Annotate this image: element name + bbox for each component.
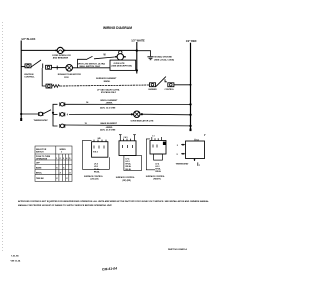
ground (147, 57, 153, 60)
svg-text:CONTROL: CONTROL (165, 89, 175, 91)
svg-text:OVEN LITE: OVEN LITE (114, 63, 126, 65)
surface control assembly 3 (146, 136, 166, 181)
svg-text:(SEE DESCRIPTION): (SEE DESCRIPTION) (112, 66, 133, 68)
svg-text:OPERATION: OPERATION (36, 158, 48, 161)
svg-text:5: 5 (69, 158, 70, 160)
svg-text:(RF) (RR): (RF) (RR) (123, 180, 132, 182)
svg-text:WALL SWITCH ONLY: WALL SWITCH ONLY (80, 65, 101, 68)
connector P1 (24, 64, 35, 79)
bus L1 end terminal (20, 118, 22, 121)
connector P3 (46, 84, 52, 88)
svg-text:1/2" RED: 1/2" RED (186, 40, 197, 43)
selector frame (53, 104, 58, 126)
svg-text:SURFACE CONTROL: SURFACE CONTROL (116, 176, 136, 179)
svg-text:(LF) (LR): (LF) (LR) (91, 178, 99, 180)
svg-text:SURFACE CONTROL: SURFACE CONTROL (84, 175, 104, 178)
svg-text:3: 3 (63, 158, 64, 160)
switch S2 burner control (149, 77, 175, 91)
broil element text (100, 100, 118, 109)
connector P4 (60, 102, 65, 106)
wire (52, 67, 66, 69)
wire indicator (69, 113, 134, 115)
junction dot N bus row1 (136, 49, 138, 51)
surface control assembly 2 (116, 135, 142, 182)
svg-text:(RIGHT): (RIGHT) (154, 179, 162, 181)
connector P2 (46, 65, 52, 69)
svg-text:1: 1 (56, 158, 57, 160)
bus L2 end terminal (190, 129, 192, 132)
thermostat TH1 connector (34, 112, 49, 122)
svg-text:1/2" BLACK: 1/2" BLACK (21, 38, 35, 41)
svg-text:BURNER: BURNER (149, 89, 158, 91)
wire row3 (60, 85, 149, 86)
lamp DS1 oven indicator (131, 111, 155, 122)
wire row2 (21, 66, 25, 68)
fan motor B1 (58, 65, 81, 79)
svg-text:2 4 5: 2 4 5 (124, 136, 128, 139)
svg-text:LF-4: LF-4 (155, 162, 159, 165)
wire row3 drop (42, 68, 46, 86)
svg-text:THERMOSTAT: THERMOSTAT (34, 119, 49, 122)
svg-text:WIRING DIAGRAM: WIRING DIAGRAM (103, 26, 132, 30)
surface element text block (96, 77, 120, 94)
svg-text:245: 245 (98, 137, 101, 140)
wire (140, 113, 191, 116)
connector P5 (60, 113, 69, 117)
resistor R1 (52, 85, 60, 88)
wire to lamp (94, 57, 115, 59)
junction tick (42, 64, 44, 69)
svg-text:2: 2 (60, 158, 61, 160)
svg-text:BY-PASS ONLY: BY-PASS ONLY (101, 91, 117, 94)
svg-text:240V, 21.8 OHM: 240V, 21.8 OHM (100, 129, 116, 132)
switch S3 selector blade (44, 110, 52, 114)
left edge scan artifact dots (2, 22, 4, 252)
svg-text:-WWW-: -WWW- (103, 81, 111, 83)
svg-text:TIME BK: TIME BK (36, 178, 44, 180)
svg-text:1/2" WHITE: 1/2" WHITE (131, 40, 145, 43)
svg-text:RR-BL: RR-BL (155, 171, 161, 173)
circuit breaker CB1 (52, 47, 71, 59)
svg-text:PART NO 22MO14: PART NO 22MO14 (168, 248, 187, 251)
svg-text:BAKE: BAKE (36, 166, 42, 169)
svg-text:(SEE LOCAL CODE): (SEE LOCAL CODE) (154, 58, 174, 61)
switch S4 blade (86, 56, 93, 59)
wire L1 bus (20, 41, 22, 121)
svg-text:SIGNAL GROUND: SIGNAL GROUND (154, 56, 172, 59)
svg-text:H N 4: H N 4 (93, 151, 98, 154)
connector P6 (60, 124, 65, 128)
svg-text:BROIL: BROIL (36, 172, 43, 174)
svg-text:-WWW-: -WWW- (106, 103, 114, 105)
bake element text (100, 122, 118, 132)
svg-text:SURFACE CONTROL: SURFACE CONTROL (146, 175, 166, 178)
svg-text:AND BREAKER: AND BREAKER (53, 56, 69, 59)
wire L2 bus (190, 43, 192, 131)
svg-text:BK-BL: BK-BL (126, 169, 132, 171)
wire (73, 67, 111, 69)
wire bake (65, 124, 191, 127)
svg-text:CONTROL: CONTROL (24, 76, 35, 78)
svg-text:115V: 115V (64, 77, 69, 79)
svg-text:MANUAL FOR PROPER HOOKUP OF RA: MANUAL FOR PROPER HOOKUP OF RANGE TO SUP… (18, 204, 112, 207)
svg-text:2: 2 (177, 145, 178, 147)
oven light DS2 bulb (115, 51, 126, 60)
svg-text:240V, 12.5 OHM: 240V, 12.5 OHM (100, 106, 116, 109)
light switch branch (78, 59, 87, 68)
wire row1 (21, 49, 137, 51)
svg-text:7-51-86: 7-51-86 (11, 256, 19, 258)
svg-text:OVEN INDICATOR LITE: OVEN INDICATOR LITE (131, 119, 155, 122)
oven light box (110, 60, 136, 70)
svg-text:SWITCH: SWITCH (36, 151, 44, 153)
svg-text:RR-BL: RR-BL (94, 171, 100, 173)
wire broil (65, 103, 191, 105)
svg-text:APPROVED SYSTEM IS NOT EQUIPPE: APPROVED SYSTEM IS NOT EQUIPPED FOR UNSU… (18, 200, 210, 203)
svg-text:VIN 11-34: VIN 11-34 (11, 260, 22, 263)
surface control assembly 1 (83, 137, 110, 180)
legend table (35, 146, 72, 181)
svg-text:BAKE ELEMENT: BAKE ELEMENT (101, 122, 118, 125)
svg-text:LF-4: LF-4 (94, 163, 98, 166)
svg-text:LP GAS VALVE ULTRA: LP GAS VALVE ULTRA (97, 89, 120, 92)
thermostat box TH2 (176, 138, 205, 166)
wire ground branch (137, 51, 151, 57)
junction dot N bus box (136, 69, 138, 71)
wire oven feed (21, 113, 38, 115)
wire (174, 84, 191, 86)
wire N bus (136, 42, 138, 74)
switch S1 blade (31, 60, 41, 67)
svg-text:THERMOSTAT: THERMOSTAT (176, 163, 190, 166)
svg-text:EXHAUST FAN MOTOR: EXHAUST FAN MOTOR (58, 73, 81, 76)
svg-text:1 3: 1 3 (152, 136, 155, 138)
svg-text:LF-4: LF-4 (126, 157, 130, 160)
svg-text:SURFACE ELEMENT: SURFACE ELEMENT (96, 77, 117, 80)
